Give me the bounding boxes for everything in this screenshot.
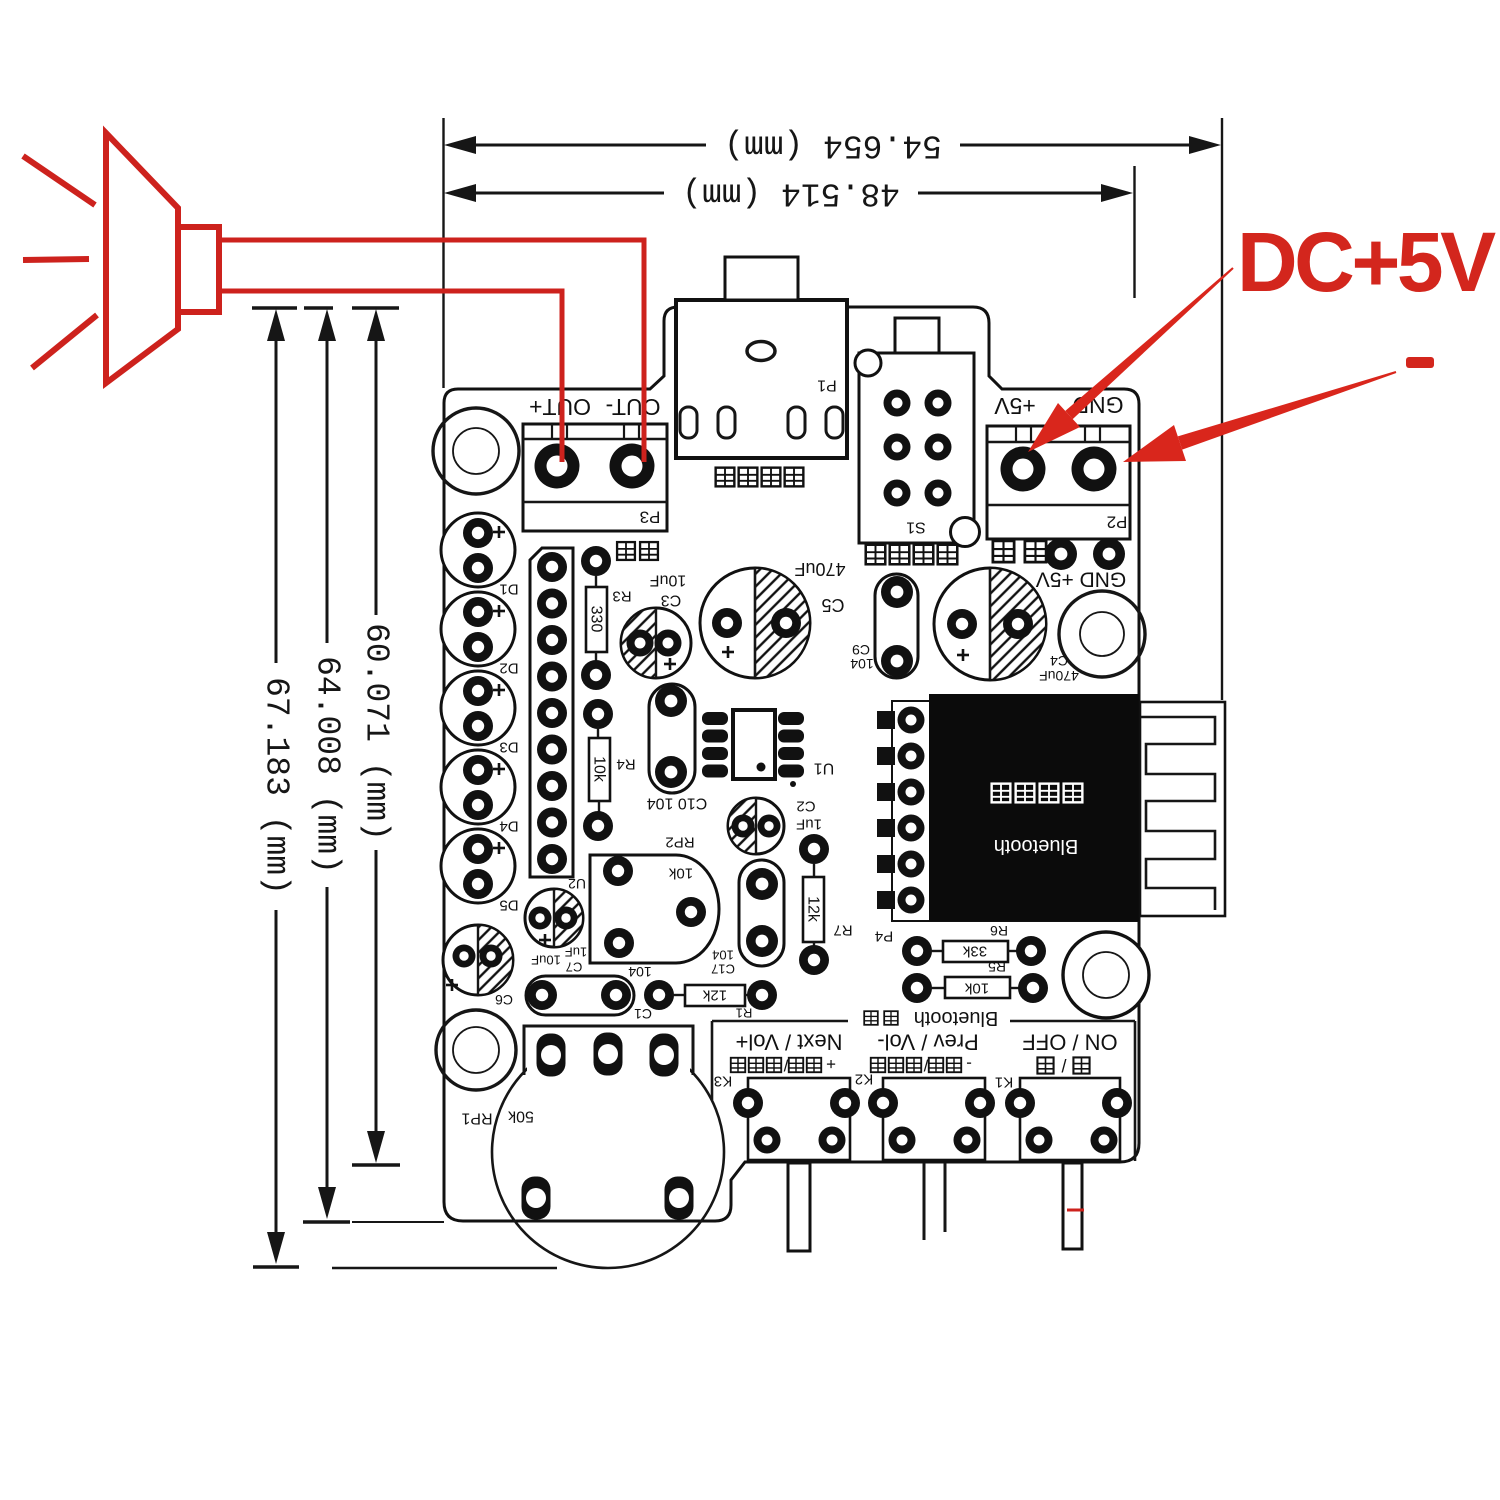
label 下一首/音量+ — [731, 1055, 836, 1075]
svg-text:10k: 10k — [591, 756, 608, 783]
wire OUT- — [219, 240, 644, 462]
wire OUT+ — [219, 291, 562, 462]
svg-text:R7: R7 — [833, 922, 852, 939]
capacitor C5 470uF — [700, 559, 846, 678]
trimpot RP2 10k — [590, 834, 719, 964]
svg-text:C6: C6 — [495, 992, 513, 1008]
svg-text:64.008 (mm): 64.008 (mm) — [309, 656, 346, 874]
dimension 60.071 (mm) — [352, 309, 400, 1165]
capacitor C9 104 — [850, 574, 918, 678]
svg-text:OUT-: OUT- — [606, 394, 661, 420]
svg-text:C5: C5 — [821, 595, 844, 615]
label 开/关 — [1037, 1055, 1089, 1075]
svg-text:10k: 10k — [964, 980, 989, 997]
Bluetooth module — [929, 694, 1139, 921]
svg-text:Prev / Vol-: Prev / Vol- — [877, 1030, 978, 1055]
speaker — [23, 133, 219, 383]
capacitor C10 — [647, 684, 708, 812]
mounting hole top-left — [433, 408, 519, 494]
svg-text:R3: R3 — [612, 588, 631, 605]
svg-text:1uF: 1uF — [565, 945, 587, 960]
svg-text:ON / OFF: ON / OFF — [1022, 1030, 1117, 1055]
svg-text:470uF: 470uF — [794, 559, 845, 579]
pad OUT- — [610, 444, 655, 489]
capacitor C17 104 — [711, 860, 784, 977]
svg-text:C7: C7 — [566, 960, 583, 975]
resistor R1 12k — [644, 980, 777, 1021]
capacitor C3 10uF — [621, 572, 691, 679]
mounting hole top-right — [1059, 591, 1145, 677]
svg-text:10uF: 10uF — [650, 572, 687, 589]
mounting hole bottom-right — [1063, 932, 1149, 1018]
svg-text:330: 330 — [588, 606, 605, 633]
svg-text:12k: 12k — [702, 987, 727, 1004]
svg-text:GND +5V: GND +5V — [1036, 568, 1126, 591]
label 电源开关 — [866, 545, 886, 565]
header J1 — [530, 548, 573, 877]
svg-text:104: 104 — [712, 948, 734, 963]
pushbutton K1 — [995, 1074, 1132, 1161]
resistor R3 330 — [581, 546, 632, 690]
resistor R6 33k — [902, 923, 1046, 966]
svg-text:+: + — [826, 1055, 836, 1074]
diode D2 — [441, 592, 519, 677]
svg-text:48.514 (mm): 48.514 (mm) — [682, 175, 900, 212]
svg-text:33k: 33k — [962, 943, 987, 960]
terminal block P3 — [523, 424, 667, 531]
svg-text:K1: K1 — [995, 1074, 1013, 1091]
capacitor C4 470uF — [934, 568, 1079, 684]
svg-text:C1: C1 — [634, 1006, 652, 1022]
svg-text:S1: S1 — [906, 519, 926, 536]
label 音频输入 — [716, 468, 735, 487]
svg-text:/: / — [1061, 1055, 1066, 1075]
mounting hole bottom-left — [436, 1010, 516, 1090]
extension dashes top of height dims — [252, 306, 399, 310]
terminal block P2 — [987, 426, 1130, 539]
PCB board outline — [444, 307, 1139, 1221]
svg-text:D3: D3 — [499, 739, 518, 756]
capacitor C6 10uF — [443, 925, 582, 1008]
svg-text:10uF: 10uF — [531, 953, 561, 968]
Bluetooth module footprint — [892, 701, 1139, 921]
extension line left (width dims) — [442, 118, 444, 388]
svg-text:K2: K2 — [855, 1071, 873, 1088]
svg-text:K3: K3 — [714, 1073, 732, 1090]
svg-text:R6: R6 — [990, 923, 1008, 939]
svg-text:C17: C17 — [711, 962, 735, 977]
K1 leg — [1063, 1163, 1082, 1249]
svg-text:60.071 (mm): 60.071 (mm) — [358, 623, 395, 841]
capacitor C2 1uF — [728, 798, 822, 855]
pad GND — [1072, 447, 1117, 492]
svg-text:D4: D4 — [499, 818, 518, 835]
svg-text:R1: R1 — [736, 1006, 753, 1021]
svg-text:D1: D1 — [499, 581, 518, 598]
capacitor U2 1uF — [525, 876, 587, 960]
svg-text:RP1: RP1 — [461, 1110, 492, 1127]
label 蓝牙 Bluetooth — [864, 1011, 878, 1025]
op-amp U1 — [702, 710, 834, 787]
red arrow to +5V — [1028, 267, 1234, 452]
svg-text:470uF: 470uF — [1039, 668, 1079, 684]
svg-text:50k: 50k — [507, 1108, 534, 1125]
svg-text:R4: R4 — [616, 756, 635, 773]
svg-text:C10 104: C10 104 — [647, 795, 708, 812]
svg-text:D5: D5 — [499, 897, 518, 914]
svg-text:54.654 (mm): 54.654 (mm) — [724, 127, 942, 164]
svg-text:D2: D2 — [499, 660, 518, 677]
pad +5V — [1001, 447, 1046, 492]
diode D5 — [441, 829, 519, 914]
svg-text:Bluetooth: Bluetooth — [994, 835, 1079, 857]
svg-text:Bluetooth: Bluetooth — [914, 1007, 999, 1029]
pushbutton K3 — [714, 1073, 860, 1161]
switch S1 — [855, 318, 980, 547]
svg-text:P1: P1 — [817, 377, 837, 394]
svg-text:104: 104 — [628, 964, 652, 980]
svg-text:Next / Vol+: Next / Vol+ — [735, 1030, 842, 1055]
label 上一首/音量- — [871, 1055, 972, 1075]
audio jack P1 — [676, 257, 847, 458]
K2 legs — [923, 1163, 926, 1240]
diode D3 — [441, 671, 519, 756]
svg-text:67.183 (mm): 67.183 (mm) — [258, 677, 295, 895]
extension line right 48.514 — [1133, 166, 1135, 298]
svg-text:1uF: 1uF — [796, 816, 822, 833]
svg-text:12k: 12k — [805, 896, 822, 923]
potentiometer RP1 50k — [461, 1026, 724, 1268]
antenna — [1140, 702, 1225, 916]
K3 leg — [788, 1163, 810, 1251]
resistor R5 10k — [902, 959, 1048, 1003]
svg-text:/: / — [923, 1056, 928, 1075]
extension line right 54.654 — [1221, 118, 1223, 700]
svg-text:P2: P2 — [1107, 513, 1128, 532]
label 蓝牙模块 (white) — [992, 784, 1011, 803]
power via 2 — [1093, 538, 1125, 570]
label 电源 — [993, 541, 1014, 562]
svg-text:C3: C3 — [661, 592, 682, 609]
svg-text:U1: U1 — [814, 760, 835, 777]
label 输出 — [617, 542, 635, 560]
svg-text:U2: U2 — [568, 876, 586, 892]
svg-text:P3: P3 — [640, 508, 661, 527]
dimension 64.008 (mm) — [303, 309, 444, 1222]
capacitor C1 104 — [526, 964, 652, 1022]
svg-text:P4: P4 — [875, 928, 893, 945]
power via 1 — [1045, 538, 1077, 570]
header P4 — [875, 707, 925, 945]
dimension 48.514 (mm) — [444, 175, 1133, 212]
pushbutton K2 — [855, 1071, 995, 1161]
diode D1 — [441, 513, 519, 598]
pad OUT+ — [535, 444, 580, 489]
svg-text:DC+5V: DC+5V — [1237, 215, 1496, 309]
svg-text:104: 104 — [850, 656, 874, 672]
label minus — [1406, 357, 1434, 368]
dimension 54.654 (mm) — [444, 127, 1221, 164]
keys area outline — [712, 1021, 1135, 1161]
red arrow to GND — [1123, 371, 1396, 462]
svg-text:R5: R5 — [988, 959, 1006, 975]
svg-text:C9: C9 — [852, 642, 870, 658]
svg-text:+5V: +5V — [994, 393, 1036, 419]
svg-text:/: / — [783, 1056, 788, 1075]
svg-text:C2: C2 — [796, 798, 815, 815]
dimension 67.183 (mm) — [253, 309, 557, 1268]
svg-text:-: - — [966, 1055, 972, 1074]
diode D4 — [441, 750, 519, 835]
svg-text:10k: 10k — [668, 865, 693, 882]
svg-text:RP2: RP2 — [665, 834, 694, 851]
resistor R4 10k — [583, 699, 636, 841]
resistor R7 12k — [799, 834, 853, 975]
